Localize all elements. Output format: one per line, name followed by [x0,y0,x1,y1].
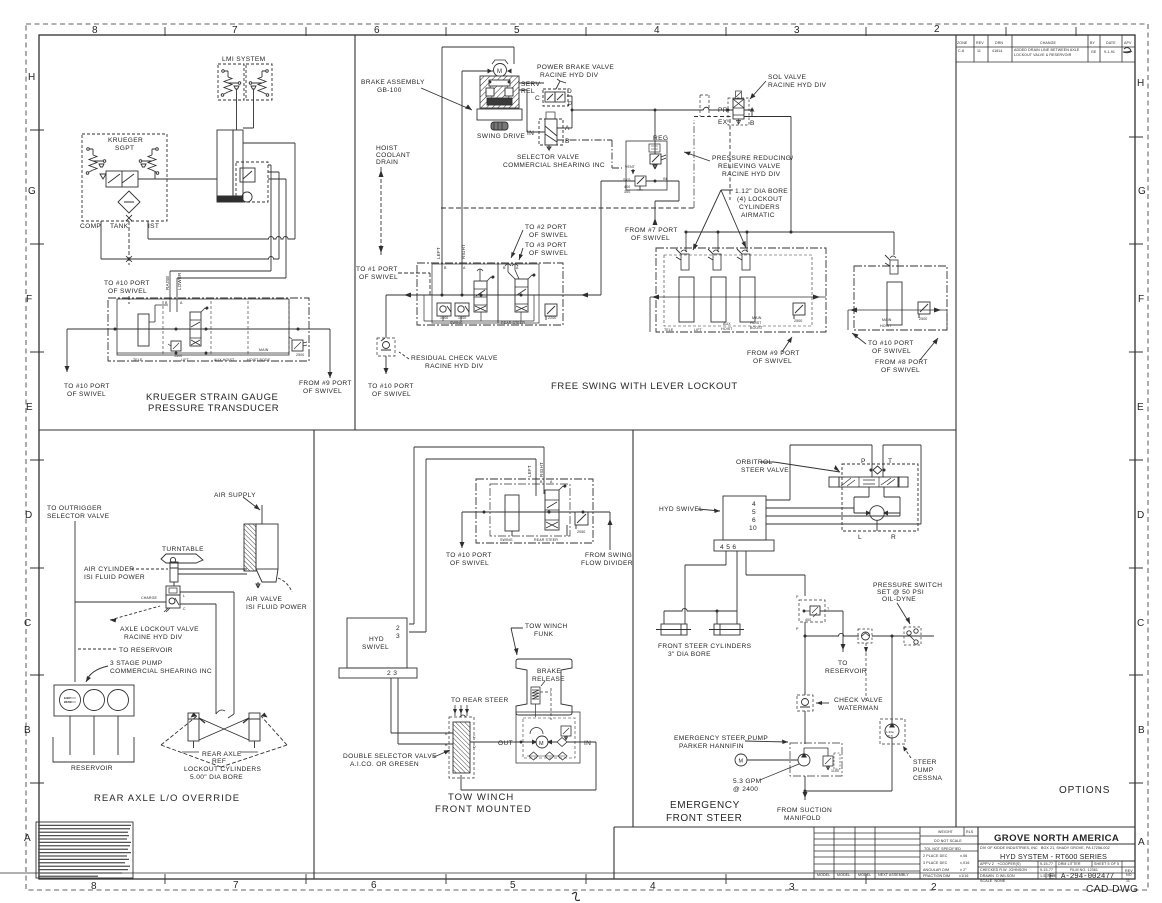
svg-text:RESIDUAL CHECK VALVE: RESIDUAL CHECK VALVE [411,355,498,362]
winch motor enclosure [516,712,580,763]
svg-text:CHARGE: CHARGE [141,596,157,600]
wire REG SYS line to swing gallery [601,181,635,295]
SEC-TOWWINCH [339,447,633,815]
wire: vertical divider left of Options column [955,35,957,827]
cylinder spacer in bank [505,495,519,531]
wire sol valve EX drain dashed [729,119,731,200]
holding cylinder tele [679,277,694,322]
selector valve SEL1 [539,119,563,145]
svg-text:M: M [497,69,502,75]
svg-text:OF SWIVEL: OF SWIVEL [753,358,792,365]
svg-text:6: 6 [371,880,377,891]
svg-text:FROM SUCTION: FROM SUCTION [777,807,832,814]
relief valve 2500 lift bank [793,303,805,315]
node: FROM #9 PORT OF SWIVEL label [299,380,352,395]
node: STEER PUMP CESSNA label [913,759,942,782]
wire leader from #9 [782,337,792,352]
svg-text:PR: PR [718,107,728,114]
rear steer valve bank enclosure [476,479,593,543]
lockout cylinder tele pilot [681,250,687,252]
wire: vertical divider right of Rear-Axle section [313,430,315,879]
solenoid pilot valve 1500 left [437,303,451,316]
node: weight / tolerance block grid [920,827,978,851]
svg-text:FRONT STEER CYLINDERS: FRONT STEER CYLINDERS [658,643,752,650]
svg-text:M: M [539,741,544,747]
svg-text:A: A [180,301,183,305]
brake assembly housing hatched [480,76,519,108]
relief valve 2200 [545,304,557,316]
wire pump to relief [804,748,828,756]
svg-text:TO RESERVOIR: TO RESERVOIR [119,647,173,654]
svg-text:FROM #7 PORT: FROM #7 PORT [625,227,678,234]
svg-text:A: A [565,125,570,132]
svg-text:RELEASE: RELEASE [532,676,565,683]
node: LEFT RIGHT labels [436,244,466,259]
node: proprietary notice box [36,822,133,878]
wire leader from #8 [920,338,938,360]
wire leader emergency pump [745,741,788,742]
wire sol valve B to lockout manifold [744,117,791,233]
svg-text:FREE SWING WITH LEVER LOCKOUT: FREE SWING WITH LEVER LOCKOUT [551,381,738,392]
wire leader hyd swivel [698,509,720,511]
pressure transducer LMI left symbol [222,70,225,73]
svg-text:FROM SWING: FROM SWING [585,552,632,559]
svg-text:1.12" DIA BORE: 1.12" DIA BORE [735,188,788,195]
wire cylinder cross line with hop [664,608,737,624]
svg-text:REL: REL [521,88,535,95]
pressure transducer LMI left enclosure [218,64,244,100]
svg-text:RAISE: RAISE [165,275,170,290]
svg-text:CHANGE: CHANGE [1040,41,1056,45]
wire leader steer pump dashed [903,746,911,758]
svg-text:LOCKOUT VALVE & RESERVOIR: LOCKOUT VALVE & RESERVOIR [1014,53,1072,57]
svg-text:5.00" DIA BORE: 5.00" DIA BORE [190,774,243,781]
node: TO #10 PORT OF SWIVEL label mid [868,340,914,355]
svg-text:7: 7 [232,25,238,36]
SEC-EMERGENCY [656,445,942,824]
valve spool rear steer [515,279,528,312]
svg-text:B: B [565,138,570,145]
wire bank to swivel port 9 [329,329,331,378]
svg-text:SELECTOR VALVE: SELECTOR VALVE [517,154,580,161]
node: RESIDUAL CHECK VALVE label [411,355,498,370]
svg-text:C: C [183,607,186,611]
sol valve enclosure dashed [728,98,749,125]
svg-text:5: 5 [514,25,520,36]
svg-text:E: E [1137,402,1144,413]
svg-text:(8.7): (8.7) [887,734,893,738]
orbitrol 4-way valve [829,477,839,487]
svg-text:FILM NO. 12361: FILM NO. 12361 [1070,868,1098,872]
shuttle diamond on IN line [557,738,567,747]
node: sol valve port labels [718,107,755,127]
svg-text:A: A [24,833,31,844]
svg-text:OF SWIVEL: OF SWIVEL [872,348,911,355]
front steer cylinder right [714,624,740,635]
pressure switch PS1 [904,627,921,645]
swing drive gear [491,122,508,130]
wire out line [470,741,536,743]
node: FROM #8 PORT OF SWIVEL label [875,359,928,374]
wire spacer step [149,305,168,322]
svg-text:TOW WINCH: TOW WINCH [448,792,514,803]
svg-text:KRUEGER STRAIN GAUGE: KRUEGER STRAIN GAUGE [146,392,278,403]
svg-text:2200: 2200 [548,316,556,320]
svg-text:OF SWIVEL: OF SWIVEL [881,367,920,374]
wire leader to #10 mid [852,333,866,344]
wire swivel to selector valve [391,678,453,744]
svg-text:KRUEGER: KRUEGER [108,137,143,144]
svg-text:MAIN: MAIN [882,318,892,322]
wire swivel to cylinders and main [685,551,805,624]
drain X mark [126,215,132,221]
wire from LMI left to accumulator group [236,89,238,130]
cylinder accumulator group [217,130,233,200]
node: L R labels [858,534,896,541]
svg-text:ANGULAR DIM: ANGULAR DIM [923,868,949,872]
svg-text:FUNK: FUNK [534,631,554,638]
svg-text:IN: IN [584,740,591,747]
svg-text:COOLANT: COOLANT [376,152,410,159]
lockout cylinder lift pilot [713,250,719,252]
svg-text:(4) LOCKOUT: (4) LOCKOUT [737,196,783,203]
svg-text:OF SWIVEL: OF SWIVEL [631,235,670,242]
svg-text:REAR STEER: REAR STEER [534,538,558,542]
svg-text:GB-100: GB-100 [377,87,402,94]
PARTSTABLE [814,827,978,879]
pressure transducer Krueger left [87,148,90,151]
wire leader to #2 port [511,230,523,258]
node: EMERGENCY STEER PUMP label [674,735,768,750]
svg-text:FRONT MOUNTED: FRONT MOUNTED [435,804,532,815]
svg-text:11: 11 [977,49,981,53]
svg-text:AUX HOIST: AUX HOIST [214,358,235,362]
wire brake line hop [530,728,543,735]
svg-text:R: R [891,534,896,541]
svg-text:B: B [540,480,543,484]
wire leader brake assembly label [421,88,472,110]
node: TO #10 PORT OF SWIVEL label lower left [64,383,110,398]
svg-text:MAIN: MAIN [752,316,762,320]
svg-text:A: A [463,266,466,270]
svg-text:DRN: DRN [995,41,1003,45]
svg-text:HOIST: HOIST [721,327,733,331]
wire outrigger line [75,521,166,682]
svg-text:TO REAR STEER: TO REAR STEER [451,697,509,704]
svg-text:10: 10 [749,525,757,532]
steer pump cessna SP1 [880,719,905,744]
svg-text:D: D [25,510,32,521]
node: TO RESERVOIR label [825,660,867,675]
wire suction line [804,776,806,800]
node: bank section labels [133,358,271,362]
wire lockout air gallery [686,232,894,255]
svg-text:AIR SUPPLY: AIR SUPPLY [214,492,256,499]
node: MAIN HOIST label [880,318,892,328]
svg-text:6: 6 [374,25,380,36]
wire leader to #3 port [519,248,523,260]
node: rear axle reference chevrons dashed [161,716,287,767]
wire REG main feed from pressure line [654,110,656,154]
node: COMP TANK IST port labels [80,223,159,230]
holding cylinder main hoist [887,282,902,325]
svg-text:WATERMAN: WATERMAN [838,705,879,712]
svg-text:TO OUTRIGGER: TO OUTRIGGER [47,505,102,512]
svg-text:RELIEVING VALVE: RELIEVING VALVE [718,163,781,170]
svg-text:WEIGHT: WEIGHT [938,830,954,834]
wire selector A loop to P [557,110,572,128]
svg-text:4: 4 [752,501,756,508]
wire brake top loop [442,47,514,295]
node: P T labels relief [796,595,830,631]
wire leader air cylinder dashed [131,568,168,570]
orbitrol valve enclosure [842,464,918,531]
svg-text:AIRMATIC: AIRMATIC [741,212,775,219]
svg-text:HYD: HYD [369,636,384,643]
brake release valve in drum [531,687,540,704]
node: SERV REL port labels [521,81,540,95]
node: SELECTOR VALVE COMMERCIAL SHEARING INC label [503,154,605,169]
relief valve emergency enclosure [799,600,825,622]
svg-text:FLOW DIVIDER: FLOW DIVIDER [581,560,633,567]
wire raise branch [170,270,271,272]
check valve waterman CV2 [797,695,813,711]
svg-text:SWING: SWING [450,321,463,325]
turntable bar [161,554,203,563]
svg-text:A-294-002477: A-294-002477 [1061,873,1114,881]
node: BRAKE ASSEMBLY GB-100 label [361,79,425,94]
node: power brake valve port labels [535,88,573,108]
svg-text:F: F [1138,294,1144,305]
wire from Krueger IST port with hops [148,221,295,239]
svg-text:8: 8 [92,25,98,36]
svg-text:1500: 1500 [458,316,466,320]
node: selector valve port labels [527,125,570,145]
wire brake pilot dashed [540,688,551,720]
svg-text:TO #10 PORT: TO #10 PORT [446,552,492,559]
svg-text:SELECTOR VALVE: SELECTOR VALVE [47,513,110,520]
svg-text:41814: 41814 [992,49,1003,53]
wire relief T to reservoir [820,611,843,652]
wire crossover hump [216,710,234,718]
counterbalance valve winch [561,726,571,736]
svg-text:G: G [1138,186,1146,197]
svg-text:IST: IST [148,223,159,230]
wire to 10 port drop [461,512,463,548]
svg-text:SWING DRIVE: SWING DRIVE [477,133,525,140]
svg-text:C: C [1137,618,1144,629]
svg-text:L: L [858,534,862,541]
svg-text:HOIST BODE: HOIST BODE [247,358,271,362]
lockout cylinder rear right [249,713,260,741]
svg-text:RACINE HYD DIV: RACINE HYD DIV [425,363,484,370]
wire main hoist gallery [848,310,947,330]
svg-text:OF SWIVEL: OF SWIVEL [359,274,398,281]
node: section title TOW WINCH FRONT MOUNTED [435,792,532,815]
wire dashed to air valve label [278,578,292,592]
svg-text:E: E [1049,872,1054,881]
svg-text:OPTIONS: OPTIONS [1059,785,1110,796]
svg-text:CHECKED R.W. JOHNSON: CHECKED R.W. JOHNSON [980,868,1027,872]
svg-text:26.50: 26.50 [64,700,72,704]
wire steer pump return to suction [805,738,892,791]
node: TO OUTRIGGER SELECTOR VALVE label [47,505,110,520]
orbitrol metering diamond [873,466,882,474]
svg-text:AUX: AUX [723,322,731,326]
svg-text:6: 6 [752,517,756,524]
node: 3 STAGE PUMP label [110,660,212,675]
svg-text:ORBITROL: ORBITROL [736,459,773,466]
axle lockout valve ALV upper element [166,586,180,595]
steer motor gerotor [870,506,885,521]
wire leader to REG [684,152,710,161]
svg-text:D: D [567,88,572,95]
svg-text:TO #10 PORT: TO #10 PORT [368,383,414,390]
svg-text:LMI SYSTEM: LMI SYSTEM [222,56,265,63]
node: parts list table grid [814,827,920,879]
svg-text:AIR CYLINDER: AIR CYLINDER [84,566,134,573]
node: REG port labels [623,165,667,194]
wire from swing flow divider drop [609,512,611,550]
svg-text:OF SWIVEL: OF SWIVEL [450,560,489,567]
node: TO #10 PORT OF SWIVEL label left [368,383,414,398]
pump relief cartridge [823,756,833,766]
node: OUT IN labels [498,740,591,747]
node: title block outline and cells [978,827,1135,879]
relief valve 2500 main bank [918,302,930,314]
svg-text:PRESSURE SWITCH: PRESSURE SWITCH [873,582,942,589]
svg-text:4 5 6: 4 5 6 [720,544,736,551]
svg-text:OF SWIVEL: OF SWIVEL [529,250,568,257]
node: SWING and REAR STEER labels [450,321,525,325]
wire to reservoir dashed [78,648,116,650]
node: pilot dashed stub box [700,95,709,116]
svg-text:±.06: ±.06 [960,854,967,858]
svg-text:TO #10 PORT: TO #10 PORT [64,383,110,390]
wire raise lower feeds [170,271,177,312]
air cylinder AC1 [170,562,178,582]
svg-text:3: 3 [789,882,795,893]
wire gallery to residual check valve [386,295,402,338]
wire lift bank gallery [650,297,826,332]
air valve AV1 hatched body [244,524,256,571]
wire bank to swivel port 10 [67,329,108,372]
wire pressure main from power brake valve [567,96,733,110]
svg-text:TO #3 PORT: TO #3 PORT [525,242,567,249]
svg-text:STEER VALVE: STEER VALVE [741,467,789,474]
node: TO #10 PORT OF SWIVEL label (tank drain) [104,280,150,295]
svg-text:B: B [1138,725,1145,736]
brake disc stack [487,98,512,105]
svg-text:POWER BRAKE VALVE: POWER BRAKE VALVE [537,64,614,71]
axle lockout valve ALV lower element [166,595,180,608]
reservoir R1 [53,737,134,762]
svg-text:7: 7 [233,880,239,891]
node: FRONT STEER CYLINDERS label [658,643,752,658]
svg-text:LEFT: LEFT [527,465,532,477]
svg-text:±1/16: ±1/16 [959,874,968,878]
node: B A port labels [444,266,519,270]
wire solenoid to accumulator [138,171,217,179]
pressure transducer LMI right symbol [266,70,269,73]
svg-text:DOUBLE SELECTOR VALVE: DOUBLE SELECTOR VALVE [343,753,437,760]
svg-text:3: 3 [396,633,400,640]
svg-text:9-1-91: 9-1-91 [1104,50,1115,54]
svg-text:TANK: TANK [110,223,129,230]
svg-text:1100: 1100 [831,769,839,773]
check valve block beside accumulator [236,162,268,202]
svg-text:C: C [24,618,31,629]
svg-text:B: B [750,120,755,127]
svg-text:2500: 2500 [296,353,304,357]
svg-text:11: 11 [1126,879,1130,883]
svg-text:RESERVOIR: RESERVOIR [825,668,867,675]
pressure reducing-relieving valve REG enclosure [626,141,667,190]
node: AXLE LOCKOUT VALVE RACINE HYD DIV label [120,626,199,641]
wire: short vertical at left end of title block strip [613,827,615,879]
svg-text:LOWER: LOWER [177,272,182,290]
svg-text:2 3: 2 3 [387,670,397,677]
svg-text:APP'V 2 +COOPER(S): APP'V 2 +COOPER(S) [980,862,1021,866]
wire tow winch top feed lines [409,447,544,632]
pressure transducer Krueger right [156,148,159,151]
svg-text:BRAKE ASSEMBLY: BRAKE ASSEMBLY [361,79,425,86]
svg-text:@ 2400: @ 2400 [733,786,758,793]
svg-text:ISI FLUID POWER: ISI FLUID POWER [84,574,145,581]
svg-text:TO #10 PORT: TO #10 PORT [868,340,914,347]
svg-text:A.I.CO. OR GRESEN: A.I.CO. OR GRESEN [350,761,419,768]
svg-text:C-8: C-8 [958,49,964,53]
svg-text:P: P [796,627,799,631]
svg-text:CESSNA: CESSNA [913,775,942,782]
svg-text:MAIN: MAIN [259,348,269,352]
wire: vertical divider right of Tow-Winch section [632,430,634,827]
node: DOUBLE SELECTOR VALVE label [343,753,437,768]
wire accumulator to right bus [243,143,295,239]
svg-text:COMP: COMP [80,223,101,230]
node: SOL VALVE label [768,74,827,89]
node: pilot enclosure dash-dot [693,120,695,208]
svg-text:HOIST: HOIST [880,324,892,328]
svg-text:SGPT: SGPT [115,145,134,152]
svg-text:SET @ 50 PSI: SET @ 50 PSI [877,589,924,596]
solenoid pilot valve 1500 right [455,303,469,316]
node: HYD SWIVEL label [362,636,389,651]
svg-text:LOCKOUT CYLINDERS: LOCKOUT CYLINDERS [184,766,262,773]
node: swivel port numbers 4 5 6 10 [749,501,757,532]
emergency pump enclosure [790,743,842,776]
wire VENT dashed [632,169,634,174]
svg-text:APV: APV [1124,41,1132,45]
wire main junction line with hop [805,633,934,636]
wire filter to tank dashed [128,221,130,304]
svg-text:NO: NO [1126,873,1132,877]
filter F1 diamond [118,191,140,213]
node: valve port labels [445,732,476,749]
sol valve SV1 [733,99,744,119]
lift aux hoist bank enclosure [656,248,826,332]
wire lockout cross lines [199,718,249,740]
svg-text:TO #2 PORT: TO #2 PORT [525,224,567,231]
wire check valve drain dashed [865,643,867,700]
node: proprietary notice text lines [38,825,131,876]
svg-text:OF SWIVEL: OF SWIVEL [529,232,568,239]
wire leader check valve [816,702,829,704]
pressure transducer LMI right enclosure [246,64,272,100]
svg-text:FROM #9 PORT: FROM #9 PORT [299,380,352,387]
svg-text:TOW WINCH: TOW WINCH [525,623,568,630]
node: bank internal separators [163,301,289,354]
